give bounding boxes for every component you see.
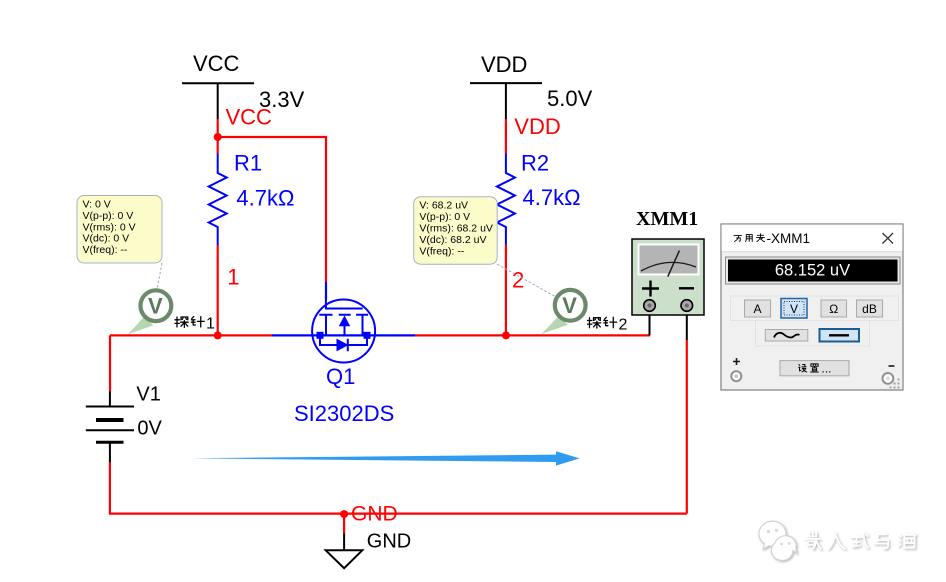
button settings [780,361,849,376]
svg-text:VCC: VCC [193,51,240,76]
panel title [734,234,764,242]
svg-text:XMM1: XMM1 [636,208,698,230]
button Ohm [821,300,847,317]
watermark text [806,532,916,549]
probe 1 [128,290,171,334]
svg-text:V: V [790,302,798,316]
wire VDD lead [505,119,507,154]
group box modes [731,296,899,321]
svg-text:1: 1 [227,265,239,290]
svg-text:V(freq): --: V(freq): -- [419,245,464,257]
wire minus down to ground rail [686,340,688,514]
button dB [857,300,883,317]
svg-text:Ω: Ω [829,302,838,316]
plus terminal label [733,358,740,365]
transistor Q1 [312,300,375,363]
button AC [765,330,808,342]
svg-text:V(dc): 0 V: V(dc): 0 V [83,233,130,245]
svg-text:dB: dB [862,302,877,316]
svg-text:4.7kΩ: 4.7kΩ [523,185,581,210]
svg-text:V1: V1 [136,383,160,405]
wire GND stub [343,514,345,533]
wire source lead blue [272,334,313,336]
svg-text:V(dc): 68.2 uV: V(dc): 68.2 uV [419,234,486,246]
resistor R2 [497,154,515,245]
svg-text:-XMM1: -XMM1 [767,231,811,246]
label probe1 [175,317,204,328]
svg-text:GND: GND [351,502,398,525]
svg-text:GND: GND [367,530,411,552]
ground symbol [326,550,363,568]
svg-text:V(p-p): 0 V: V(p-p): 0 V [419,211,470,223]
svg-text:V: 0 V: V: 0 V [83,199,111,211]
wire multimeter minus lead [686,311,688,340]
leader line probe1 [157,263,162,290]
svg-text:R2: R2 [521,151,549,176]
svg-text:VDD: VDD [481,52,527,77]
svg-text:Q1: Q1 [326,364,355,389]
svg-text:2: 2 [619,317,628,334]
svg-text:0V: 0V [137,418,162,440]
multimeter XMM1 icon [632,239,704,315]
svg-text:VDD: VDD [514,114,560,139]
label probe2 [588,317,617,328]
svg-text:V(rms): 68.2 uV: V(rms): 68.2 uV [419,223,493,235]
resize grip [890,379,900,389]
node junction 2 [502,331,510,339]
svg-text:V: V [148,293,163,318]
display [726,257,901,284]
probe tooltip 1 [77,196,162,264]
button V selected [781,299,807,319]
wire gate lead blue [325,282,327,300]
radio right [883,373,894,384]
wire VCC to gate [218,137,326,282]
svg-text:5.0V: 5.0V [547,86,593,111]
group box signal [756,321,870,347]
probe tooltip 2 [414,197,498,265]
wire battery to ground rail [110,462,687,513]
annotation arrow [191,451,580,465]
svg-text:V(freq): --: V(freq): -- [83,244,128,256]
wire multimeter plus lead [649,311,651,335]
wire VCC lead [217,119,219,137]
wire node1 horizontal red left [110,334,272,336]
node junction 1 [214,331,222,339]
svg-text:A: A [753,302,761,316]
power rail VDD [470,52,542,119]
power rail VCC [182,51,254,119]
watermark logo [759,521,797,560]
close button [883,233,894,244]
wire node1 down to battery [109,335,111,391]
svg-text:R1: R1 [234,150,262,175]
svg-text:V(p-p): 0 V: V(p-p): 0 V [83,210,134,222]
svg-text:V(rms): 0 V: V(rms): 0 V [83,221,136,233]
node junction GND [340,510,348,518]
svg-text:1: 1 [206,315,215,332]
wire node2 horizontal red [415,334,650,336]
probe 2 [542,290,586,334]
svg-text:...: ... [822,361,832,375]
svg-text:2: 2 [512,268,524,293]
button DC selected [820,329,860,342]
resistor R1 [209,154,227,246]
battery V1 [86,392,134,463]
svg-text:4.7kΩ: 4.7kΩ [236,186,294,211]
svg-text:68.152 uV: 68.152 uV [775,261,850,279]
button A [745,300,771,317]
svg-text:V: 68.2 uV: V: 68.2 uV [419,200,468,212]
wire drain lead blue [374,334,415,336]
svg-text:V: V [562,293,577,318]
radio left [731,371,741,381]
multimeter panel window [721,224,903,390]
svg-text:SI2302DS: SI2302DS [294,401,394,426]
svg-text:VCC: VCC [226,105,273,130]
minus terminal label [889,365,895,367]
wire VCC to R1 [217,137,219,154]
wire R2 to node2 [505,245,507,336]
wire R1 to node1 [217,245,219,335]
node junction VCC [214,133,222,141]
leader line probe2 [497,264,556,297]
